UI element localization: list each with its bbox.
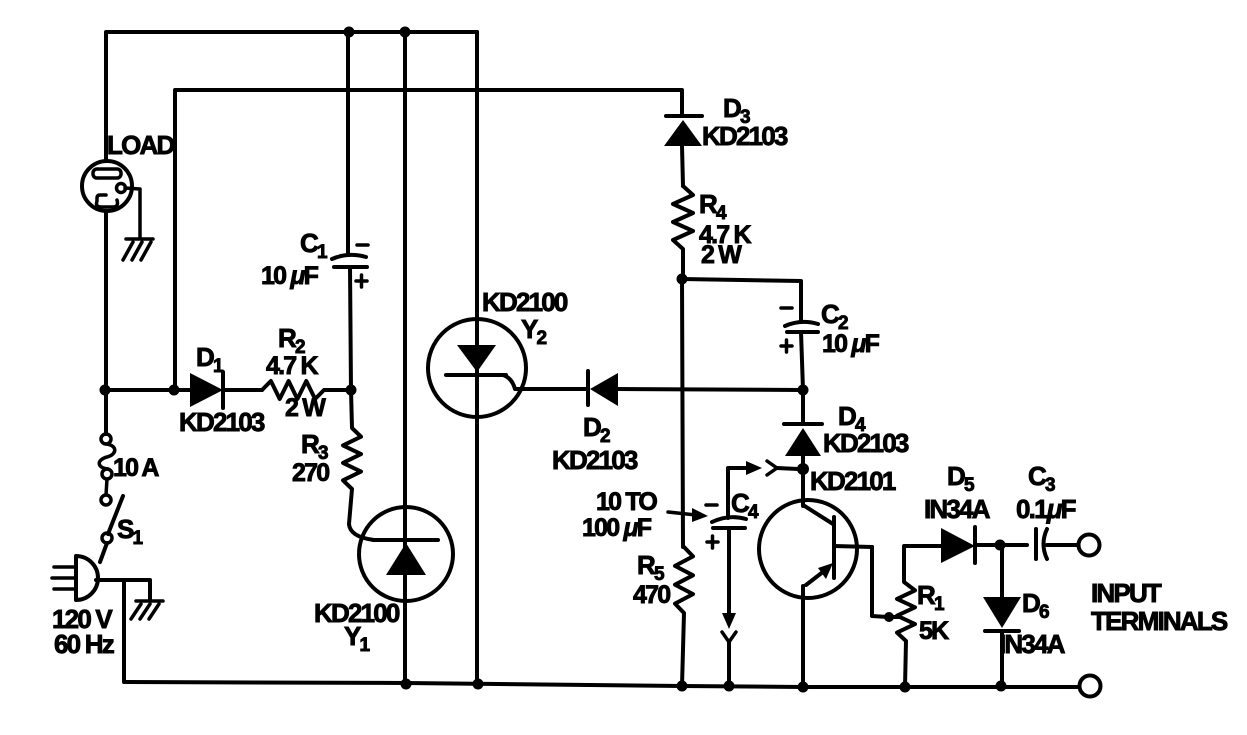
label minus (C1) — [357, 243, 368, 247]
svg-text:10 TO: 10 TO — [596, 488, 657, 516]
svg-text:10 μF: 10 μF — [822, 330, 880, 358]
svg-text:10 A: 10 A — [113, 454, 159, 482]
ground (load) — [123, 239, 153, 260]
ground (plug) — [131, 601, 163, 619]
SCR Y2 KD2100 — [428, 32, 526, 684]
diode D5 1N34A — [941, 527, 1027, 563]
svg-text:TERMINALS: TERMINALS — [1091, 606, 1228, 636]
label plus (C2) — [781, 340, 792, 352]
switch S1 — [101, 479, 123, 543]
diode D1 KD2103 — [190, 372, 262, 408]
load outlet symbol — [82, 161, 132, 211]
potentiometer R1 — [897, 547, 915, 687]
wire neutral down and bottom rail — [124, 580, 1077, 687]
label minus (C4) — [706, 503, 717, 507]
svg-text:10 μF: 10 μF — [261, 262, 319, 290]
svg-text:KD2101: KD2101 — [810, 466, 896, 496]
node junction C2/D2/D4 — [798, 385, 809, 396]
node junction R5 bottom rail — [677, 681, 688, 692]
node junction R1 bottom rail — [900, 682, 911, 693]
resistor R2 — [262, 381, 351, 399]
resistor R5 — [675, 547, 693, 686]
wire switch to plug — [100, 543, 107, 562]
capacitor C4 external — [712, 461, 798, 686]
node junction D4/C4/base — [797, 463, 809, 475]
node junction top rail Y1 — [400, 27, 411, 38]
wire wiper to R1 — [889, 615, 899, 619]
node junction top rail C1 — [344, 27, 355, 38]
node junction D5/C3/D6 — [995, 540, 1006, 551]
node junction D1 anode — [169, 385, 180, 396]
capacitor C3 — [1036, 529, 1078, 559]
wire second rail — [175, 90, 682, 390]
svg-text:470: 470 — [633, 581, 670, 609]
node junction R2/C1/R3 — [346, 385, 357, 396]
node junction R4 bottom — [677, 274, 688, 285]
svg-text:60 Hz: 60 Hz — [54, 629, 115, 659]
svg-text:270: 270 — [292, 459, 329, 487]
node junction Y1 bottom rail — [401, 679, 412, 690]
fuse F1 10A — [99, 390, 115, 479]
svg-text:100 μF: 100 μF — [582, 514, 652, 542]
node junction R1 wiper — [884, 612, 894, 622]
svg-text:KD2103: KD2103 — [552, 445, 638, 475]
svg-text:KD2100: KD2100 — [482, 287, 568, 317]
arrow label to C4 — [668, 508, 708, 522]
svg-text:KD2103: KD2103 — [823, 428, 909, 458]
svg-text:0.1μF: 0.1μF — [1016, 494, 1076, 524]
wire R3 to Y1 gate — [349, 524, 374, 540]
label plus (C4) — [707, 536, 718, 548]
wire main horizontal left — [105, 388, 192, 392]
plug P1 — [52, 556, 98, 600]
label minus (C2) — [781, 306, 792, 310]
capacitor C1 — [332, 32, 367, 390]
capacitor C2 — [785, 322, 818, 390]
diode D3 KD2103 — [664, 116, 702, 186]
svg-text:LOAD: LOAD — [107, 130, 174, 160]
wire top rail — [106, 32, 477, 320]
resistor R3 — [343, 390, 361, 524]
svg-text:IN34A: IN34A — [999, 629, 1066, 659]
wire R4 junction down to R5 — [682, 279, 683, 547]
resistor R4 — [673, 186, 693, 277]
svg-text:2 W: 2 W — [701, 241, 742, 269]
diode D2 KD2103 — [588, 371, 802, 406]
terminal input top — [1079, 535, 1100, 556]
node junction Q1 bottom rail — [798, 682, 809, 693]
svg-text:2 W: 2 W — [285, 394, 326, 422]
wire Y2 gate to D2 — [520, 387, 588, 391]
node junction Y2 bottom rail — [473, 679, 484, 690]
svg-text:KD2103: KD2103 — [179, 407, 265, 437]
wire C2 branch — [682, 279, 801, 321]
node junction C4 bottom rail — [724, 681, 735, 692]
diode D4 KD2103 — [784, 390, 822, 506]
svg-text:5K: 5K — [919, 617, 949, 645]
svg-text:KD2103: KD2103 — [702, 121, 788, 151]
SCR Y1 KD2100 — [359, 32, 453, 684]
svg-text:IN34A: IN34A — [924, 494, 991, 524]
node junction main wire left — [100, 385, 111, 396]
wire R1 top to D5 — [904, 544, 941, 548]
node junction D6 bottom rail — [996, 681, 1007, 692]
terminal input bottom — [1080, 676, 1101, 697]
wire emitter to R1 wiper — [872, 547, 888, 617]
diode D6 1N34A — [983, 545, 1021, 687]
wire load to ground — [125, 188, 140, 238]
label plus (C1) — [356, 275, 367, 287]
wire lamp bottom — [104, 211, 108, 390]
svg-text:INPUT: INPUT — [1091, 578, 1162, 608]
svg-text:4.7 K: 4.7 K — [266, 352, 318, 380]
wire plug right — [96, 580, 150, 601]
transistor Q1 KD2101 — [759, 500, 872, 687]
